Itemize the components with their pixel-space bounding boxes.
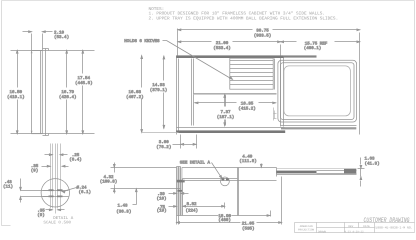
dimension 2.10 (53.4) [23, 30, 70, 40]
detail A magnified wall lines [51, 144, 61, 214]
dimension 14.93 (379.1) vertical [150, 56, 168, 129]
top extension line [11, 50, 95, 52]
svg-text:.35: .35 [37, 208, 45, 213]
slide rail end dark block [344, 169, 356, 174]
svg-text:Ø.24: Ø.24 [77, 186, 88, 191]
dimension 16.03 (407.2) vertical [126, 56, 178, 133]
dimension 21.05 (535) [177, 177, 282, 232]
shelf line [194, 94, 277, 95]
detail A cross lines [43, 190, 69, 192]
left view rail top tab [43, 48, 49, 50]
svg-text:3.00: 3.00 [159, 140, 170, 145]
svg-text:36.75: 36.75 [256, 29, 269, 34]
arrowheads on left wall line (16.50 companion) [31, 50, 33, 134]
svg-text:17.54: 17.54 [78, 76, 91, 81]
dimension .35 (9) below detail [37, 208, 64, 218]
svg-text:SCALE 0.500: SCALE 0.500 [43, 220, 71, 225]
slide rail top line [277, 168, 357, 170]
left view tray cross-section outline [32, 50, 43, 133]
notes text block [149, 7, 339, 22]
lower view tray rim top line [182, 167, 277, 169]
dimension .43 (11) leaders [3, 179, 51, 203]
dimension 16.50 (419.1) vertical [7, 50, 25, 134]
sheet border frame right [414, 1, 416, 233]
svg-text:8.82: 8.82 [186, 202, 197, 207]
dimension 7.37 (187.1) vertical with divider [217, 95, 235, 126]
dimension .75 (19) [157, 205, 177, 214]
dimension .35 (9) left of detail columns [31, 164, 69, 174]
cabinet left wall [176, 56, 178, 135]
lower view front wall [177, 167, 183, 225]
svg-text:1.63: 1.63 [365, 157, 376, 162]
detail A boundary circle [41, 179, 69, 207]
sheet border frame left [1, 1, 3, 226]
cabinet bottom lines [177, 126, 357, 128]
slide rail dark section [276, 171, 316, 174]
bottom slide gray band [281, 127, 356, 129]
svg-text:16.50: 16.50 [10, 90, 23, 95]
tray rear bracket marks [274, 108, 277, 121]
dimension 18.90 (480) [218, 211, 270, 224]
svg-text:DRAWN: DRAWN [318, 230, 326, 233]
svg-text:16.79: 16.79 [61, 90, 74, 95]
svg-text:16.03: 16.03 [129, 90, 142, 95]
detail source circle [221, 177, 230, 186]
svg-text:.43: .43 [4, 180, 12, 185]
dimension 36.75 (933.5) [178, 29, 360, 135]
svg-text:SEE DETAIL A: SEE DETAIL A [180, 161, 211, 166]
dimension .25 (6.4) [45, 153, 82, 163]
sheet border frame top [2, 0, 415, 2]
left view rail line [45, 49, 47, 136]
svg-text:21.05: 21.05 [242, 221, 255, 226]
dimension 15.75 REF (400.1) [281, 41, 360, 51]
svg-text:DATE: DATE [363, 225, 370, 228]
lower view bottom line [177, 215, 219, 217]
basket outer rounded rect [278, 60, 357, 122]
svg-text:16.35: 16.35 [241, 102, 254, 107]
svg-text:CUSTOMER DRAWING: CUSTOMER DRAWING [364, 217, 410, 225]
left view rail bottom tab [43, 135, 49, 137]
slide rail outer section lines [317, 170, 357, 172]
sheet border frame bottom-left tick [2, 225, 11, 227]
extension lines up for 2.10 dim [31, 34, 33, 51]
svg-text:7.37: 7.37 [220, 110, 231, 115]
svg-text:14.93: 14.93 [152, 83, 165, 88]
detail A hatch bits [49, 189, 63, 197]
svg-text:1.43: 1.43 [117, 204, 128, 209]
svg-text:2. UPPER TRAY IS EQUIPPED WITH: 2. UPPER TRAY IS EQUIPPED WITH 400MM BAL… [149, 16, 339, 21]
dimension 17.54 (445.5) vertical [75, 50, 93, 134]
lower view wall hook dark bits [177, 180, 185, 192]
svg-text:HOLDS 6 KNIVES: HOLDS 6 KNIVES [124, 39, 160, 44]
svg-text:5000-45-0030-1-M NO.: 5000-45-0030-1-M NO. [375, 226, 412, 230]
knife block [230, 58, 275, 89]
svg-text:15.75 REF: 15.75 REF [305, 42, 328, 47]
basket inner rounded rect [280, 63, 354, 120]
inner wall [191, 59, 193, 126]
dimension .39 (10) [156, 192, 188, 201]
dimension 16.79 (426.4) vertical [59, 50, 77, 134]
holds 6 knives label [124, 39, 232, 80]
dimension 1.43 (36.3) [116, 189, 137, 215]
title block table [295, 223, 415, 233]
see detail A label and leader [180, 161, 222, 179]
svg-text:REV: REV [348, 225, 353, 228]
diameter callout .24 (6.1) [62, 186, 91, 196]
dimension 4.40 (111.8) [239, 155, 262, 168]
hole dark bits inside circle [222, 178, 229, 180]
bottom extension line [11, 133, 95, 135]
lower view back wall [237, 168, 239, 216]
svg-text:4.32: 4.32 [103, 175, 114, 180]
svg-text:(224): (224) [186, 208, 199, 214]
svg-text:21.00: 21.00 [216, 41, 229, 46]
dimension 16.35 (415.2) [195, 102, 276, 112]
dimension 3.00 (76.2) [156, 135, 196, 150]
dimension 4.32 (109.8) [100, 163, 181, 194]
svg-text:(36.3): (36.3) [116, 209, 131, 215]
svg-text:2.10: 2.10 [54, 30, 65, 35]
left view inner wall line [40, 51, 42, 134]
basket wire band rounded rect [284, 66, 351, 116]
lower view front wall shading [177, 167, 183, 215]
dimension 8.82 (224) [183, 202, 225, 214]
bottom rail dark band [176, 130, 285, 133]
svg-text:PROJECTION: PROJECTION [298, 229, 315, 232]
dimension 1.63 (41.3) [358, 157, 380, 187]
cabinet right wall [280, 56, 282, 127]
lower view top surface [177, 168, 277, 216]
cabinet top thick band [176, 55, 316, 58]
svg-text:(535): (535) [242, 226, 255, 232]
svg-text:4.40: 4.40 [242, 155, 253, 160]
svg-text:.35: .35 [31, 164, 39, 169]
dimension 21.00 (533.4) [178, 41, 281, 56]
svg-text:4.23 4-29-22: 4.23 4-29-22 [344, 230, 364, 233]
svg-text:.25: .25 [72, 153, 80, 158]
lower view tray rear step [276, 168, 278, 177]
slide rail bottom line [277, 174, 357, 176]
